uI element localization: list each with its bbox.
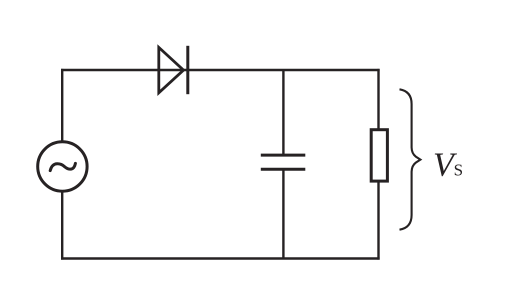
svg-text:S: S bbox=[454, 160, 463, 179]
